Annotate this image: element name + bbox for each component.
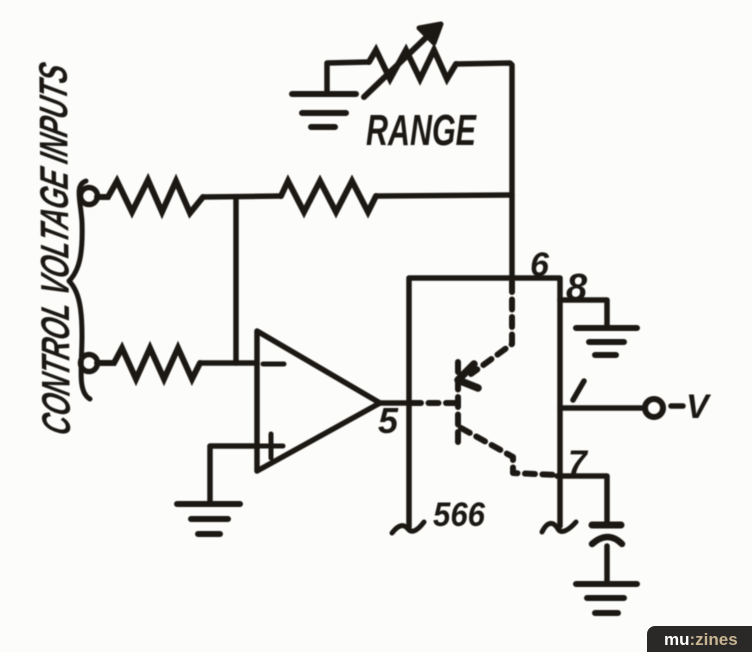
svg-text:CONTROL VOLTAGE INPUTS: CONTROL VOLTAGE INPUTS <box>30 58 79 439</box>
resistor R2 <box>281 181 376 212</box>
svg-text:6: 6 <box>530 246 550 284</box>
ground for RANGE pot <box>327 62 369 94</box>
wiper arrow of RANGE pot <box>364 28 436 97</box>
ground for capacitor <box>576 584 637 613</box>
transistor Q1 emitter (dashed) <box>471 282 512 374</box>
junction wire down to inverting input row <box>233 197 239 363</box>
wire capacitor to ground <box>604 546 610 582</box>
wire op-amp + input to ground <box>210 446 257 503</box>
wire RANGE pot to pin 6 bus <box>456 63 512 278</box>
input terminal 2 <box>81 355 98 372</box>
svg-text:V: V <box>686 388 712 426</box>
transistor Q1 emitter arrowhead <box>458 364 478 388</box>
resistor R3 <box>97 348 200 379</box>
ground for pin 8 <box>576 328 637 355</box>
resistor R1 <box>97 180 203 213</box>
break squiggle left <box>392 522 424 533</box>
wire R1 to junction <box>203 196 281 197</box>
potentiometer RANGE <box>369 50 456 79</box>
wire op-amp output to pin 5 <box>380 400 409 406</box>
dashed wire pin 5 to base <box>411 400 456 406</box>
op-amp U1 <box>257 331 380 471</box>
svg-text:5: 5 <box>378 400 399 441</box>
wire pin 7 to capacitor <box>557 476 607 522</box>
wire pin 8 to ground <box>560 300 607 327</box>
brace for control voltage inputs <box>69 181 90 399</box>
wire R3 to op-amp inverting input <box>200 360 257 366</box>
capacitor C1 <box>592 522 621 529</box>
transistor Q1 collector (dashed) <box>461 428 557 475</box>
wire R2 to vertical bus <box>376 195 512 196</box>
net label -V <box>671 403 683 409</box>
input terminal 1 <box>81 188 98 205</box>
pin 1 label <box>573 381 584 400</box>
svg-text:RANGE: RANGE <box>366 106 477 155</box>
ground for op-amp + input <box>177 504 240 534</box>
break squiggle right <box>542 522 576 532</box>
transistor Q1 base (dashed) <box>455 362 461 446</box>
output terminal -V <box>645 399 663 417</box>
wire pin 1 to -V terminal <box>560 405 643 411</box>
IC 566 box <box>409 278 560 527</box>
mu:zines logo <box>647 626 752 652</box>
svg-text:566: 566 <box>433 496 486 534</box>
